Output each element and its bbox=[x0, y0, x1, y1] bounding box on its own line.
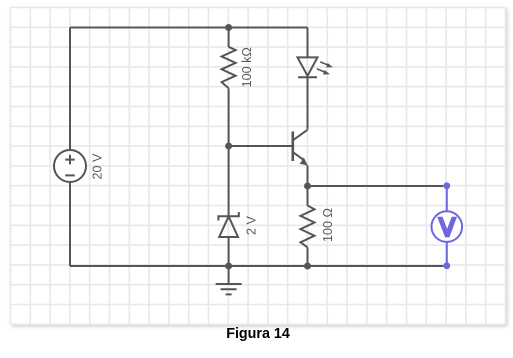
svg-text:20 V: 20 V bbox=[90, 153, 104, 180]
voltmeter M1 circle bbox=[432, 211, 463, 242]
resistor R1 100 kOhm bbox=[222, 47, 236, 88]
wire 100k bottom lead to base node bbox=[228, 88, 230, 146]
node dot bottom zener bbox=[225, 263, 232, 270]
wire LED top lead bbox=[307, 28, 309, 58]
voltage source V1 circle bbox=[54, 150, 86, 182]
LED emission arrow lower bbox=[317, 69, 330, 75]
wire top rail bbox=[70, 27, 308, 29]
voltmeter M1 lead bottom bbox=[446, 242, 448, 266]
transistor Q1 collector stroke bbox=[294, 130, 308, 140]
node dot bottom R2 bbox=[304, 263, 311, 270]
voltmeter M1 terminal dot top bbox=[443, 182, 450, 189]
ground bars bbox=[216, 284, 242, 294]
ground lead bbox=[228, 266, 230, 284]
node dot base bbox=[225, 143, 232, 150]
wire left rail lower bbox=[69, 182, 71, 266]
voltmeter M1 lead top bbox=[446, 186, 448, 212]
voltmeter M1 terminal dot bottom bbox=[443, 262, 450, 269]
wire to voltmeter top bbox=[308, 185, 444, 187]
svg-text:2 V: 2 V bbox=[245, 216, 259, 236]
node dot emitter bbox=[304, 183, 311, 190]
resistor R2 100 Ohm bbox=[301, 206, 315, 248]
voltmeter M1 letter V bbox=[437, 217, 457, 238]
wire base bbox=[229, 145, 293, 147]
wire emitter node to R2 bbox=[307, 186, 309, 206]
zener diode D2 top lead bbox=[228, 146, 230, 216]
voltage source V1 plus sign bbox=[65, 155, 75, 165]
wire bottom rail bbox=[70, 265, 443, 267]
transistor Q1 base bar bbox=[291, 132, 294, 162]
voltage source V1 minus sign bbox=[65, 174, 75, 176]
zener diode D2 cathode bar bbox=[218, 212, 238, 221]
svg-text:100 Ω: 100 Ω bbox=[321, 208, 335, 242]
wire emitter lead bbox=[307, 166, 309, 187]
svg-text:Figura 14: Figura 14 bbox=[226, 326, 290, 342]
zener diode D2 triangle bbox=[219, 216, 238, 237]
wire R2 bottom lead bbox=[307, 247, 309, 266]
wire LED to collector bbox=[307, 77, 309, 129]
LED D1 body bbox=[298, 57, 318, 77]
wire 100k top lead bbox=[228, 28, 230, 48]
svg-text:100 kΩ: 100 kΩ bbox=[240, 47, 254, 87]
transistor Q1 emitter stroke with arrow bbox=[294, 153, 308, 166]
zener bottom lead bbox=[228, 237, 230, 266]
LED emission arrow upper bbox=[320, 62, 333, 68]
node dot top bbox=[225, 24, 232, 31]
wire left rail upper bbox=[69, 28, 71, 151]
